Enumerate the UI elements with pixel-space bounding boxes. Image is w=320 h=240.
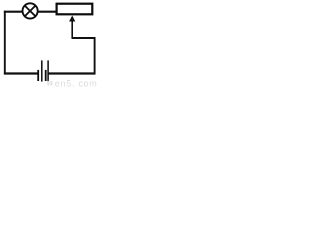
wire lamp to rheostat [38, 11, 57, 13]
wire bottom left (left corner to battery) [4, 72, 39, 74]
wire right vertical [94, 37, 96, 74]
wire wiper to right side [72, 37, 96, 39]
battery positive plate 4 (long) [47, 60, 49, 81]
wiper arrow head [69, 16, 75, 22]
wire left vertical [4, 11, 6, 75]
battery negative plate 3 (short) [45, 70, 47, 81]
battery positive plate 2 (long) [41, 60, 43, 81]
battery negative plate 1 (short) [37, 70, 39, 81]
lamp L1 [23, 3, 38, 18]
wire top-left horizontal (corner to lamp) [4, 11, 23, 13]
wire bottom right (battery to right corner) [48, 72, 95, 74]
rheostat R1 (rectangle) [57, 4, 93, 15]
svg-text:en5. com: en5. com [55, 78, 98, 88]
battery B1 [38, 60, 48, 81]
wiper arrow shaft [71, 21, 73, 39]
watermark text [47, 78, 97, 88]
